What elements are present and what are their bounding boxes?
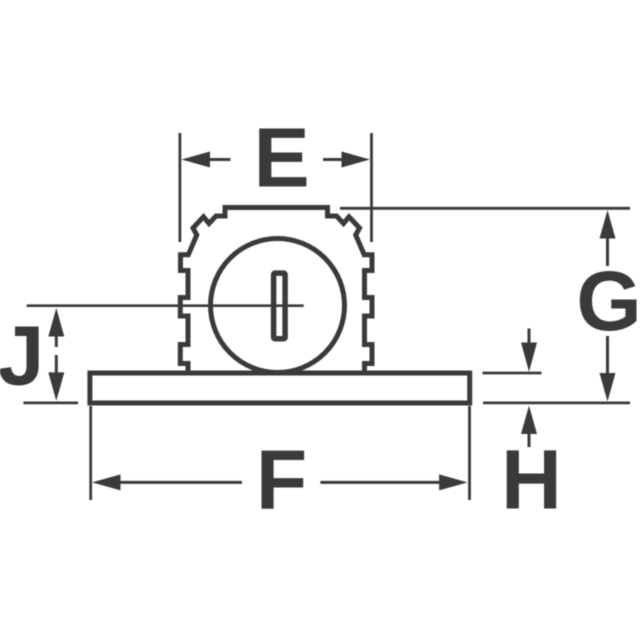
rotor circle	[211, 239, 345, 373]
dimension E: right extension line	[370, 133, 373, 242]
dimension E: right arrow	[323, 152, 370, 168]
center line (J top extension)	[27, 304, 304, 307]
body outline (castellated trimmer body)	[180, 208, 372, 375]
svg-text:E: E	[254, 111, 310, 205]
dimension F: left extension line	[89, 406, 92, 500]
dimension H: upper arrow (down)	[521, 329, 537, 372]
svg-text:H: H	[501, 433, 562, 527]
screwdriver slot	[274, 273, 286, 339]
dimension F: left arrow	[92, 474, 242, 490]
dimension G: top extension line	[340, 207, 630, 210]
base plate	[90, 373, 470, 403]
svg-text:F: F	[256, 433, 307, 527]
svg-text:G: G	[576, 254, 640, 348]
dimension H: top extension line	[483, 372, 542, 375]
dimension F: right arrow	[320, 474, 467, 490]
dimension J: bottom extension line	[23, 401, 78, 404]
dimension G: down arrow	[600, 336, 616, 402]
dimension F: right extension line	[468, 406, 471, 500]
dimension G: up arrow	[600, 210, 616, 266]
dimension E: left extension line	[178, 133, 181, 242]
dimension E: left arrow	[182, 152, 231, 168]
dimension J: up arrow	[48, 308, 64, 347]
svg-text:J: J	[0, 309, 44, 403]
dimension H: lower arrow (up)	[521, 406, 537, 448]
dimension G: bottom extension line	[483, 401, 630, 404]
dimension J: down arrow	[48, 355, 64, 401]
